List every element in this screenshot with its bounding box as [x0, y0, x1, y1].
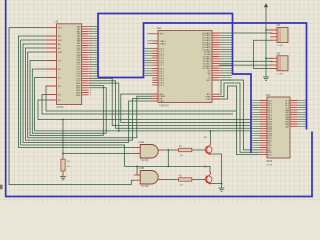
wire net L (U1 right pin long row to Q1 collector)	[89, 83, 251, 131]
connector U5 pins	[270, 30, 277, 40]
wire bus 3 (left edge / bottom loop)	[6, 0, 312, 197]
connector U5 body	[277, 28, 288, 43]
wire U5 pin 4 loop to U6 pin 4	[254, 40, 273, 68]
svg-text:U5: U5	[277, 23, 281, 27]
wire U2 to U5 pin 2	[219, 32, 273, 34]
wire bus entries U1 right side	[89, 27, 97, 76]
svg-text:74LS08: 74LS08	[141, 186, 150, 188]
svg-text:U6: U6	[277, 52, 281, 56]
AND gate U4:A body	[140, 145, 158, 159]
wire U2 to U6 pin 3	[219, 64, 273, 66]
AND gate U4:B body	[140, 171, 158, 185]
IC U1 8255 body	[57, 24, 82, 105]
wire net O (U1 lower left row / R3 node)	[38, 100, 251, 120]
wire U2 control to U3 pin (hop 1)	[219, 80, 259, 150]
svg-text:RST: RST	[160, 34, 165, 36]
wire R1 to Q1 base	[192, 149, 206, 151]
svg-text:INT1: INT1	[206, 80, 210, 82]
AND gate U4:B pins	[134, 175, 165, 180]
wire net B (U1 to U4:B input A feedback node)	[21, 40, 141, 175]
svg-text:U1: U1	[55, 20, 59, 24]
svg-text:U4:B: U4:B	[139, 167, 145, 170]
resistor R3 body	[61, 159, 65, 171]
svg-text:U3: U3	[266, 93, 270, 97]
wire U2 to U6 pin 2	[219, 60, 273, 62]
svg-text:U4:A: U4:A	[139, 141, 145, 144]
IC U3 right pins	[290, 101, 298, 127]
wire bus entries U3 right side	[298, 101, 306, 127]
wire bus entries U2 left side	[145, 34, 153, 76]
svg-text:GND: GND	[76, 95, 81, 97]
ground below R3	[60, 177, 66, 180]
IC U3 left pins	[259, 101, 267, 155]
wire Q2 emitter to ground rail	[211, 183, 222, 185]
wire net Q2 collector feedback	[137, 166, 210, 172]
wire Q1 emitter to ground rail	[211, 154, 222, 188]
label fragment at left edge	[0, 185, 3, 190]
wire net J (U1 right pin to U3 bus row)	[89, 78, 251, 125]
svg-text:RD: RD	[58, 36, 62, 38]
wire net D0 (U1 pin to U4:B input B)	[9, 28, 134, 185]
IC U1 right pin numbers	[90, 26, 92, 96]
wire net K (U1 right pin to U3 bus row)	[89, 81, 251, 128]
IC U2 AT89C51 body	[158, 31, 212, 103]
IC U2 right pin numbers	[220, 32, 222, 100]
wire U5 pin 1 to power rail	[266, 29, 273, 31]
wire net R3 pulldown to U4:A input B	[63, 120, 140, 177]
wire U4:B output to R2	[158, 179, 178, 181]
svg-text:VSS: VSS	[160, 101, 165, 103]
ground below Q1/Q2 emitters	[219, 188, 225, 191]
wire net N (U1 lower left row)	[42, 95, 233, 115]
svg-text:AT89C51: AT89C51	[159, 105, 170, 108]
resistor R2 body	[179, 178, 192, 181]
svg-text:CONN: CONN	[277, 45, 284, 47]
wire U6 pin 1 to power rail	[266, 57, 273, 59]
wire bus 1 (U1 right to U2/U3 area)	[98, 14, 251, 154]
svg-text:RXD: RXD	[207, 99, 212, 101]
power arrow	[264, 3, 268, 7]
transistor Q2	[205, 176, 212, 183]
svg-text:XTAL2: XTAL2	[160, 42, 167, 45]
wire Q1 collector up to bus row	[210, 131, 212, 143]
svg-text:8279: 8279	[267, 160, 273, 163]
wire net G (U1 left to U1 right pin)	[30, 61, 103, 136]
junction dots	[62, 119, 64, 121]
IC U3 8279 body	[267, 97, 290, 158]
wire U2 control to U3 pin (hop 2)	[219, 83, 259, 152]
wire U4:A output to R1	[158, 149, 178, 151]
svg-text:WR: WR	[58, 40, 62, 42]
svg-text:KEYB: KEYB	[267, 164, 273, 166]
svg-text:CONN: CONN	[277, 74, 284, 76]
wire net I (U1 left to bus line)	[35, 78, 119, 131]
ground power rail	[263, 77, 269, 80]
connector U6 body	[277, 56, 288, 71]
IC U1 left pins	[46, 28, 57, 100]
connector U6 pins	[270, 58, 277, 68]
wire net E (U1 to U2 EA pin)	[25, 48, 152, 140]
wire bus entries U3 left side	[252, 101, 259, 148]
wire net P (U2 left pin row)	[121, 94, 251, 122]
wire net F (U1 to U2 PSEN pin)	[28, 52, 153, 138]
svg-text:74LS08: 74LS08	[141, 160, 150, 162]
wire R2 to Q2 base	[192, 179, 206, 181]
IC U2 left pins	[152, 34, 158, 101]
wire bus 2 (top loop to U3 right side)	[98, 23, 307, 130]
svg-text:8255A: 8255A	[57, 106, 65, 109]
IC U2 right pins	[212, 33, 219, 99]
wire net A (U1 to U4:A input A)	[18, 36, 140, 147]
svg-text:RST: RST	[58, 52, 63, 54]
resistor R1 body	[179, 148, 192, 151]
svg-text:U2: U2	[157, 26, 161, 30]
wire net H (U1 left to U1 right pin)	[32, 69, 106, 133]
wire power rail vertical	[265, 7, 267, 77]
wire bus entries U2 right side	[219, 35, 232, 80]
wire junction drop on R1 wire	[167, 150, 169, 166]
AND gate U4:A pins	[134, 147, 165, 153]
IC U1 right pins	[82, 27, 89, 95]
wire net M (U1 lower left row)	[46, 86, 236, 111]
wire net C (U1 to U2 lower left pin)	[23, 44, 152, 142]
transistor Q1	[205, 146, 212, 153]
wire U2 control to U3 pin (hop 3)	[219, 86, 259, 155]
